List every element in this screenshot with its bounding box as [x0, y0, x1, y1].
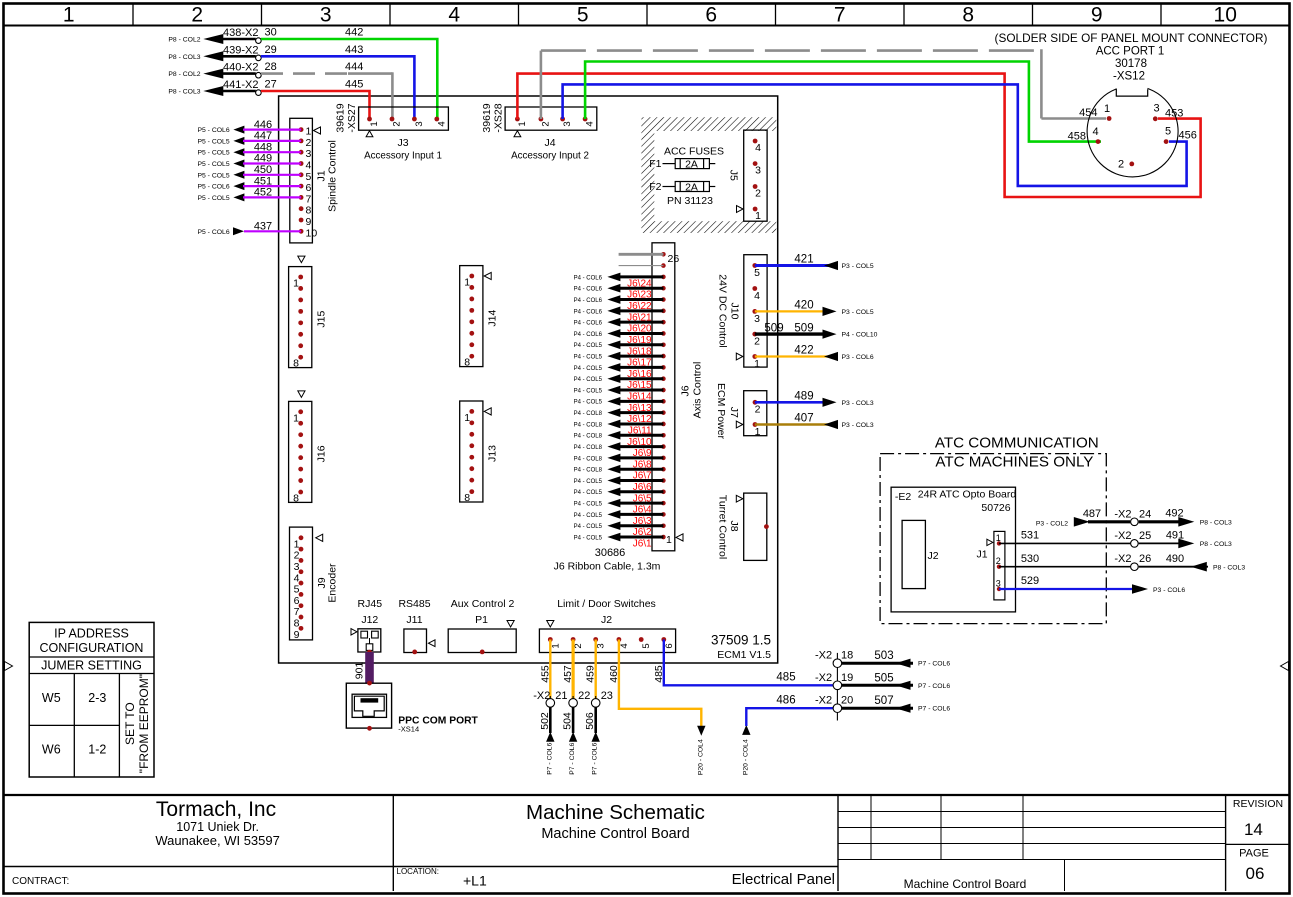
svg-text:7: 7 — [306, 193, 312, 205]
connector J5 — [728, 130, 767, 222]
svg-text:447: 447 — [254, 130, 272, 142]
wire 491 — [1139, 530, 1232, 549]
svg-text:06: 06 — [1246, 864, 1265, 883]
svg-text:J7: J7 — [728, 407, 740, 418]
wire 437 J1.10 — [197, 221, 301, 236]
svg-text:P7 - COL6: P7 - COL6 — [918, 683, 950, 690]
svg-text:Tormach, Inc: Tormach, Inc — [156, 798, 276, 821]
connector J11 RS485 — [398, 598, 435, 654]
svg-text:P5 - COL5: P5 - COL5 — [197, 138, 229, 145]
svg-text:+L1: +L1 — [463, 873, 487, 889]
wire 420 J10.3 — [755, 300, 874, 316]
svg-text:P7 - COL6: P7 - COL6 — [569, 742, 576, 774]
wire 444 (grey dashed) — [261, 72, 392, 119]
wire 452 J1.7 — [197, 187, 301, 202]
svg-text:491: 491 — [1166, 530, 1184, 542]
svg-text:P4 - COL5: P4 - COL5 — [574, 366, 603, 372]
svg-text:P4 - COL5: P4 - COL5 — [574, 502, 603, 508]
svg-text:P4 - COL8: P4 - COL8 — [574, 445, 603, 451]
svg-text:4: 4 — [306, 160, 312, 172]
svg-text:ECM Power: ECM Power — [715, 383, 727, 440]
svg-text:449: 449 — [254, 153, 272, 165]
svg-text:P4 - COL5: P4 - COL5 — [574, 343, 603, 349]
svg-text:6: 6 — [294, 595, 300, 607]
svg-text:P4 - COL5: P4 - COL5 — [574, 388, 603, 394]
svg-text:21: 21 — [555, 690, 567, 702]
svg-text:J1: J1 — [977, 549, 988, 561]
svg-text:439-X2: 439-X2 — [223, 44, 258, 56]
PPC COM PORT -XS14 — [346, 681, 478, 734]
J6 ribbon wire J6\18 — [574, 340, 664, 357]
title company Tormach Inc — [12, 798, 280, 887]
terminal rail -X2 18/19/20 — [836, 653, 838, 721]
svg-text:30178: 30178 — [1115, 58, 1147, 70]
label 30686 — [595, 547, 626, 559]
wire 489 J7.2 — [755, 391, 874, 407]
J6 pin label 1 — [666, 534, 672, 546]
svg-text:P4 - COL5: P4 - COL5 — [574, 377, 603, 383]
svg-text:25: 25 — [1139, 530, 1151, 542]
svg-text:8: 8 — [294, 618, 300, 630]
svg-text:2: 2 — [392, 121, 403, 126]
wire 530 ATC J1.2 — [999, 553, 1130, 567]
svg-text:10: 10 — [1214, 4, 1237, 27]
svg-text:P4 - COL8: P4 - COL8 — [574, 434, 603, 440]
svg-text:437: 437 — [254, 221, 272, 233]
svg-text:509: 509 — [794, 322, 813, 334]
wire 455 J2.1 — [539, 640, 551, 699]
svg-text:-XS12: -XS12 — [1113, 71, 1145, 83]
svg-text:3: 3 — [996, 579, 1001, 589]
left edge marker — [5, 662, 13, 671]
right edge marker — [1281, 662, 1289, 671]
wire 460 J2.4 to P20-COL4 — [608, 640, 706, 776]
svg-text:-X2: -X2 — [1114, 530, 1131, 542]
input flag 440-X2 terminal -X2:28 wire 444 — [168, 61, 363, 79]
J6 pin label 26 — [668, 253, 680, 265]
svg-text:P5 - COL5: P5 - COL5 — [197, 150, 229, 157]
J6 ribbon wire J6\17 — [574, 352, 664, 369]
svg-text:3: 3 — [562, 121, 573, 126]
svg-text:J2: J2 — [601, 614, 612, 626]
wire 503 to P7-COL6 — [842, 650, 950, 668]
svg-text:2: 2 — [754, 336, 760, 348]
J6 ribbon wire J6\6 — [574, 476, 664, 493]
connector J14 — [460, 266, 499, 369]
svg-text:446: 446 — [254, 119, 272, 131]
svg-text:26: 26 — [1139, 553, 1151, 565]
svg-text:P8 - COL3: P8 - COL3 — [1200, 520, 1232, 527]
wire 451 J1.6 — [197, 175, 301, 190]
svg-text:6: 6 — [664, 643, 675, 648]
svg-text:P8 - COL3: P8 - COL3 — [1200, 541, 1232, 548]
wire 407 J7.1 — [755, 413, 874, 429]
svg-text:531: 531 — [1021, 530, 1039, 542]
svg-text:443: 443 — [345, 44, 363, 56]
svg-text:445: 445 — [345, 79, 363, 91]
svg-text:3: 3 — [755, 165, 761, 177]
J6 ribbon wire J6\19 — [574, 329, 664, 346]
svg-text:9: 9 — [306, 216, 312, 228]
wire 450 J1.5 — [197, 164, 301, 179]
J6 ribbon wire J6\10 — [574, 431, 664, 448]
svg-text:8: 8 — [293, 493, 299, 505]
svg-text:4: 4 — [754, 290, 760, 302]
svg-text:P8 - COL3: P8 - COL3 — [1213, 565, 1245, 572]
svg-text:901: 901 — [353, 662, 365, 680]
svg-text:507: 507 — [874, 695, 893, 707]
wire 443 (blue) — [261, 56, 414, 119]
wire grey J6.25 stub — [619, 265, 664, 267]
connector J15 — [289, 256, 328, 370]
svg-text:492: 492 — [1165, 508, 1183, 520]
svg-text:P5 - COL6: P5 - COL6 — [197, 229, 229, 236]
svg-text:Limit / Door Switches: Limit / Door Switches — [557, 598, 656, 610]
svg-text:489: 489 — [794, 391, 813, 403]
J6 ribbon wire J6\8 — [574, 454, 664, 471]
terminal circles -X2 30/29/28/27 — [256, 38, 262, 96]
svg-text:REVISION: REVISION — [1233, 798, 1283, 810]
svg-text:27: 27 — [265, 79, 277, 91]
svg-text:Waunakee, WI 53597: Waunakee, WI 53597 — [155, 833, 280, 848]
svg-text:407: 407 — [794, 413, 813, 425]
svg-text:8: 8 — [464, 492, 470, 504]
svg-text:24V DC Control: 24V DC Control — [716, 274, 728, 348]
svg-text:4: 4 — [436, 121, 447, 126]
svg-text:5: 5 — [294, 584, 300, 596]
svg-text:455: 455 — [539, 665, 551, 683]
svg-text:P3 - COL3: P3 - COL3 — [842, 422, 874, 429]
wire 490 — [1139, 553, 1246, 572]
svg-text:452: 452 — [254, 187, 272, 199]
svg-text:506: 506 — [584, 712, 596, 730]
svg-text:4: 4 — [585, 121, 596, 126]
svg-text:P4 - COL6: P4 - COL6 — [574, 298, 603, 304]
svg-text:456: 456 — [1179, 130, 1197, 142]
svg-text:P4 - COL6: P4 - COL6 — [574, 287, 603, 293]
wire 487 — [1036, 508, 1130, 528]
svg-text:2: 2 — [573, 643, 584, 648]
svg-text:2: 2 — [996, 556, 1001, 566]
J6 ribbon wire J6\22 — [574, 295, 664, 312]
svg-text:P7 - COL6: P7 - COL6 — [592, 742, 599, 774]
svg-text:J16: J16 — [315, 445, 327, 462]
svg-text:J15: J15 — [315, 310, 327, 327]
svg-text:PAGE: PAGE — [1239, 848, 1269, 860]
wire 444b grey J4.2 to XS12.1 — [541, 49, 1106, 119]
svg-text:459: 459 — [585, 665, 597, 683]
svg-text:1: 1 — [754, 358, 760, 370]
svg-text:SET TO: SET TO — [123, 702, 137, 745]
svg-text:1: 1 — [755, 426, 761, 438]
svg-text:448: 448 — [254, 141, 272, 153]
svg-text:P20 - COL4: P20 - COL4 — [698, 739, 705, 775]
connector J6 box — [652, 243, 675, 551]
wire 445b red J4.1 to XS12.3 — [517, 74, 1200, 197]
svg-text:P1: P1 — [475, 614, 488, 626]
svg-text:450: 450 — [254, 164, 272, 176]
J6 labels — [680, 362, 704, 419]
svg-text:2: 2 — [540, 121, 551, 126]
svg-text:P3 - COL3: P3 - COL3 — [842, 400, 874, 407]
terminals -X2 21/22/23 — [533, 690, 613, 712]
svg-text:1: 1 — [464, 412, 470, 424]
svg-text:1: 1 — [293, 278, 299, 290]
J6 ribbon wire J6\12 — [574, 408, 664, 425]
svg-text:-XS28: -XS28 — [493, 103, 505, 132]
svg-text:2: 2 — [294, 550, 300, 562]
svg-text:438-X2: 438-X2 — [223, 27, 258, 39]
svg-text:P3 - COL6: P3 - COL6 — [1153, 587, 1185, 594]
svg-text:P4 - COL8: P4 - COL8 — [574, 411, 603, 417]
connector J1 Spindle Control — [290, 118, 339, 243]
svg-text:-X2: -X2 — [533, 690, 550, 702]
wire 502 to P7-COL6 — [539, 707, 555, 774]
connector J7 ECM Power — [715, 383, 767, 440]
svg-text:441-X2: 441-X2 — [223, 79, 258, 91]
svg-text:6: 6 — [306, 182, 312, 194]
svg-text:P3 - COL5: P3 - COL5 — [842, 263, 874, 270]
svg-text:(SOLDER SIDE OF PANEL MOUNT CO: (SOLDER SIDE OF PANEL MOUNT CONNECTOR) — [995, 31, 1268, 45]
J6 pin1 marker — [676, 534, 683, 541]
svg-text:Accessory Input 2: Accessory Input 2 — [511, 151, 589, 162]
svg-text:ECM1 V1.5: ECM1 V1.5 — [717, 649, 771, 661]
svg-text:4: 4 — [619, 643, 630, 648]
svg-text:451: 451 — [254, 175, 272, 187]
connector J9 Encoder — [290, 527, 339, 641]
svg-text:P4 - COL5: P4 - COL5 — [574, 490, 603, 496]
svg-text:RS485: RS485 — [398, 598, 430, 610]
J6 ribbon wire J6\15 — [574, 374, 664, 391]
svg-text:CONTRACT:: CONTRACT: — [12, 876, 69, 887]
circular connector XS12 body — [1087, 83, 1178, 177]
svg-text:P4 - COL8: P4 - COL8 — [574, 456, 603, 462]
svg-text:3: 3 — [1153, 103, 1159, 115]
svg-text:J4: J4 — [544, 137, 555, 149]
svg-text:W6: W6 — [42, 743, 61, 757]
svg-text:Turret Control: Turret Control — [716, 495, 728, 559]
svg-text:10: 10 — [306, 227, 318, 239]
svg-text:1: 1 — [293, 412, 299, 424]
svg-text:9: 9 — [1091, 4, 1103, 27]
wire 448 J1.3 — [197, 141, 301, 156]
svg-text:1: 1 — [369, 121, 380, 126]
svg-text:1: 1 — [550, 643, 561, 648]
fuse F1 2A — [649, 158, 715, 170]
svg-text:442: 442 — [345, 27, 363, 39]
svg-text:P7 - COL6: P7 - COL6 — [918, 706, 950, 713]
svg-text:7: 7 — [834, 4, 846, 27]
svg-text:4: 4 — [448, 4, 460, 27]
svg-text:P8 - COL3: P8 - COL3 — [168, 89, 200, 96]
svg-text:J14: J14 — [487, 309, 499, 326]
wire 457 J2.2 — [562, 640, 574, 699]
svg-text:J8: J8 — [728, 520, 740, 531]
svg-text:19: 19 — [841, 672, 853, 684]
svg-text:Aux Control 2: Aux Control 2 — [451, 598, 515, 610]
svg-text:4: 4 — [1092, 126, 1098, 138]
svg-text:1: 1 — [755, 210, 761, 222]
ACC PORT 1 labels 30178 -XS12 — [995, 31, 1268, 83]
title Machine Schematic — [397, 801, 836, 889]
svg-text:P4 - COL5: P4 - COL5 — [574, 535, 603, 541]
ATC connector J1 — [977, 531, 1005, 600]
svg-text:5: 5 — [306, 171, 312, 183]
svg-text:2: 2 — [191, 4, 203, 27]
svg-text:ATC MACHINES ONLY: ATC MACHINES ONLY — [935, 454, 1093, 471]
wire 506 to P7-COL6 — [584, 707, 600, 774]
wire 504 to P7-COL6 — [562, 707, 578, 774]
svg-text:5: 5 — [577, 4, 589, 27]
svg-text:1: 1 — [306, 126, 312, 138]
svg-text:4: 4 — [294, 572, 300, 584]
svg-text:487: 487 — [1083, 508, 1101, 520]
svg-text:440-X2: 440-X2 — [223, 62, 258, 74]
svg-text:Axis Control: Axis Control — [692, 362, 704, 419]
wire 446 J1.1 — [197, 119, 301, 134]
ATC MACHINES ONLY title — [935, 454, 1093, 471]
connector J4 Accessory Input 2 (39619-XS28) — [481, 103, 597, 161]
svg-text:2: 2 — [306, 137, 312, 149]
J6 ribbon wire J6\2 — [574, 521, 664, 538]
svg-text:IP ADDRESS: IP ADDRESS — [54, 627, 129, 641]
svg-text:37509 1.5: 37509 1.5 — [711, 633, 771, 648]
svg-text:28: 28 — [265, 61, 277, 73]
svg-text:20: 20 — [841, 695, 853, 707]
svg-text:454: 454 — [1079, 107, 1097, 119]
svg-text:Encoder: Encoder — [327, 563, 339, 603]
ATC J2 header — [902, 520, 939, 588]
wire 486 to P20-COL4 — [742, 695, 833, 776]
svg-text:J6: J6 — [680, 385, 692, 396]
svg-text:RJ45: RJ45 — [358, 598, 383, 610]
input flag 438-X2 terminal -X2:30 wire 442 — [168, 27, 363, 45]
svg-text:J11: J11 — [406, 614, 422, 626]
board label ECM1 V1.5 — [717, 649, 771, 661]
svg-text:P8 - COL2: P8 - COL2 — [168, 71, 200, 78]
svg-text:503: 503 — [874, 650, 893, 662]
svg-text:1071 Uniek Dr.: 1071 Uniek Dr. — [176, 820, 259, 834]
wire 492 — [1139, 508, 1232, 527]
svg-text:421: 421 — [794, 254, 813, 266]
svg-text:30686: 30686 — [595, 547, 626, 559]
svg-text:6: 6 — [705, 4, 717, 27]
svg-text:J3: J3 — [397, 137, 408, 149]
wire 507 to P7-COL6 — [842, 695, 950, 713]
svg-text:J13: J13 — [487, 445, 499, 462]
svg-text:P3 - COL6: P3 - COL6 — [842, 354, 874, 361]
svg-text:29: 29 — [265, 44, 277, 56]
XS12 wire numbers 454 453 458 456 — [1068, 107, 1197, 143]
svg-text:P7 - COL6: P7 - COL6 — [918, 661, 950, 668]
ruler band line — [4, 25, 1290, 27]
J6 ribbon wire J6\20 — [574, 318, 664, 335]
connector J3 Accessory Input 1 (39619-XS27) — [335, 103, 449, 161]
ruler numbers 1-10 — [63, 4, 1237, 27]
svg-text:505: 505 — [874, 672, 893, 684]
svg-text:7: 7 — [294, 606, 300, 618]
svg-text:2A: 2A — [685, 181, 698, 193]
J6 ribbon wire J6\11 — [574, 420, 664, 437]
svg-text:509: 509 — [764, 323, 783, 335]
revision grid — [838, 795, 1226, 891]
wire 443b blue J4.3 to XS12.5 — [563, 84, 1187, 185]
svg-text:39619: 39619 — [335, 103, 347, 132]
svg-text:3: 3 — [414, 121, 425, 126]
svg-text:485: 485 — [653, 665, 665, 683]
svg-text:24: 24 — [1139, 508, 1151, 520]
fuse F2 2A — [649, 181, 715, 193]
svg-text:30: 30 — [265, 27, 277, 39]
svg-text:458: 458 — [1068, 131, 1086, 143]
svg-text:J2: J2 — [928, 550, 939, 562]
svg-text:-X2: -X2 — [815, 695, 832, 707]
input flag 439-X2 terminal -X2:29 wire 443 — [168, 44, 363, 62]
wire 459 J2.3 — [585, 640, 597, 699]
svg-text:530: 530 — [1021, 553, 1039, 565]
svg-text:39619: 39619 — [481, 103, 493, 132]
wire 421 J10.5 — [755, 254, 874, 270]
24R ATC Opto Board 50726 (-E2) — [891, 487, 1016, 612]
svg-text:23: 23 — [601, 690, 613, 702]
input flag 441-X2 terminal -X2:27 wire 445 — [168, 79, 363, 97]
wire 485 J2.6 — [653, 640, 833, 686]
J6 ribbon wire J6\3 — [574, 510, 664, 527]
svg-text:P5 - COL6: P5 - COL6 — [197, 184, 229, 191]
svg-text:50726: 50726 — [981, 502, 1010, 514]
J6 ribbon wire J6\16 — [574, 363, 664, 380]
svg-text:22: 22 — [578, 690, 590, 702]
J6 ribbon wire J6\7 — [574, 465, 664, 482]
svg-text:P5 - COL6: P5 - COL6 — [197, 127, 229, 134]
wire 505 to P7-COL6 — [842, 672, 950, 690]
svg-text:P4 - COL5: P4 - COL5 — [574, 354, 603, 360]
wire 442 (green) — [261, 39, 437, 119]
svg-text:P4 - COL10: P4 - COL10 — [842, 332, 878, 339]
svg-text:26: 26 — [668, 253, 680, 265]
svg-text:ACC FUSES: ACC FUSES — [664, 146, 724, 158]
wire 529 ATC J1.3 — [999, 575, 1185, 594]
ATC COMMUNICATION title — [935, 435, 1099, 452]
connector J13 — [460, 401, 499, 504]
svg-text:18: 18 — [841, 650, 853, 662]
svg-text:J6 Ribbon Cable, 1.3m: J6 Ribbon Cable, 1.3m — [554, 561, 661, 573]
J6 ribbon wire J6\9 — [574, 442, 664, 459]
svg-text:-X2: -X2 — [1114, 508, 1131, 520]
svg-text:457: 457 — [562, 665, 574, 683]
J6 ribbon wire J6\23 — [574, 284, 664, 301]
svg-text:8: 8 — [293, 358, 299, 370]
svg-text:P4 - COL6: P4 - COL6 — [574, 321, 603, 327]
connector J10 24V DC Control — [716, 255, 767, 370]
svg-text:P4 - COL6: P4 - COL6 — [574, 309, 603, 315]
label J6 Ribbon Cable — [554, 561, 661, 573]
svg-text:PN 31123: PN 31123 — [667, 195, 713, 207]
svg-text:1: 1 — [996, 533, 1001, 543]
svg-text:5: 5 — [1165, 126, 1171, 138]
board PN 37509 1.5 — [711, 633, 771, 648]
svg-text:-XS14: -XS14 — [398, 725, 419, 734]
J6 ribbon wire J6\24 — [574, 273, 664, 290]
svg-text:Accessory Input 1: Accessory Input 1 — [364, 151, 442, 162]
ACC FUSES / PN 31123 labels — [664, 146, 724, 208]
svg-text:1: 1 — [666, 534, 672, 546]
svg-text:F1: F1 — [649, 158, 661, 170]
wire 509 J10.2 — [755, 322, 878, 338]
svg-text:P5 - COL5: P5 - COL5 — [197, 161, 229, 168]
IP ADDRESS CONFIGURATION table — [29, 622, 154, 777]
svg-text:-X2: -X2 — [1114, 553, 1131, 565]
